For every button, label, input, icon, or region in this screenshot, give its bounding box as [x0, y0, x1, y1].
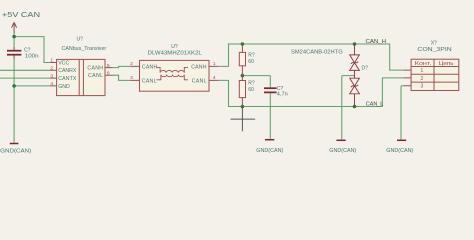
svg-text:6: 6 [107, 70, 110, 76]
svg-text:DLW43MHZ01XK2L: DLW43MHZ01XK2L [148, 50, 202, 56]
svg-text:GND(CAN): GND(CAN) [0, 148, 31, 154]
svg-text:2: 2 [130, 61, 133, 67]
svg-text:R?: R? [248, 81, 255, 87]
svg-text:4: 4 [213, 75, 216, 81]
svg-text:CANL: CANL [88, 73, 103, 79]
svg-text:1: 1 [50, 58, 53, 64]
svg-text:CAN_H: CAN_H [366, 39, 387, 45]
svg-text:CANH: CANH [142, 64, 158, 70]
svg-text:CANRX: CANRX [58, 68, 77, 74]
svg-text:CANbus_Transiver: CANbus_Transiver [62, 46, 107, 52]
svg-text:3: 3 [50, 73, 53, 79]
svg-text:R?: R? [248, 53, 255, 59]
svg-text:60: 60 [248, 87, 254, 93]
svg-text:SM24CANB-02HTG: SM24CANB-02HTG [291, 49, 343, 55]
svg-text:GND(CAN): GND(CAN) [256, 148, 283, 154]
svg-text:1: 1 [421, 68, 424, 74]
svg-text:GND(CAN): GND(CAN) [329, 148, 356, 154]
svg-text:5: 5 [107, 63, 110, 69]
svg-text:CAN_L: CAN_L [366, 102, 384, 108]
svg-text:3: 3 [421, 84, 424, 90]
svg-text:+5V CAN: +5V CAN [2, 10, 40, 19]
svg-text:Цепь: Цепь [439, 61, 454, 67]
svg-text:CANH: CANH [191, 64, 207, 70]
svg-text:U?: U? [77, 37, 84, 43]
svg-text:2: 2 [50, 66, 53, 72]
svg-text:CANTX: CANTX [58, 76, 77, 82]
svg-text:Конт.: Конт. [415, 61, 432, 67]
svg-text:CANL: CANL [142, 78, 157, 84]
svg-text:C?: C? [24, 47, 31, 53]
svg-text:CANL: CANL [192, 78, 207, 84]
svg-text:U?: U? [171, 44, 178, 50]
svg-text:3: 3 [130, 75, 133, 81]
svg-text:1: 1 [213, 61, 216, 67]
svg-text:CON_3PIN: CON_3PIN [417, 47, 452, 53]
svg-text:X?: X? [431, 40, 437, 46]
svg-text:GND(CAN): GND(CAN) [386, 148, 413, 154]
svg-text:60: 60 [248, 59, 254, 65]
svg-text:CANH: CANH [87, 66, 103, 72]
svg-text:100n: 100n [25, 53, 39, 59]
svg-text:VCC: VCC [58, 60, 69, 66]
svg-text:D?: D? [362, 65, 369, 71]
svg-text:2: 2 [421, 76, 424, 82]
svg-text:GND: GND [58, 84, 70, 90]
svg-text:4: 4 [50, 81, 53, 87]
svg-text:4,7n: 4,7n [277, 91, 288, 97]
